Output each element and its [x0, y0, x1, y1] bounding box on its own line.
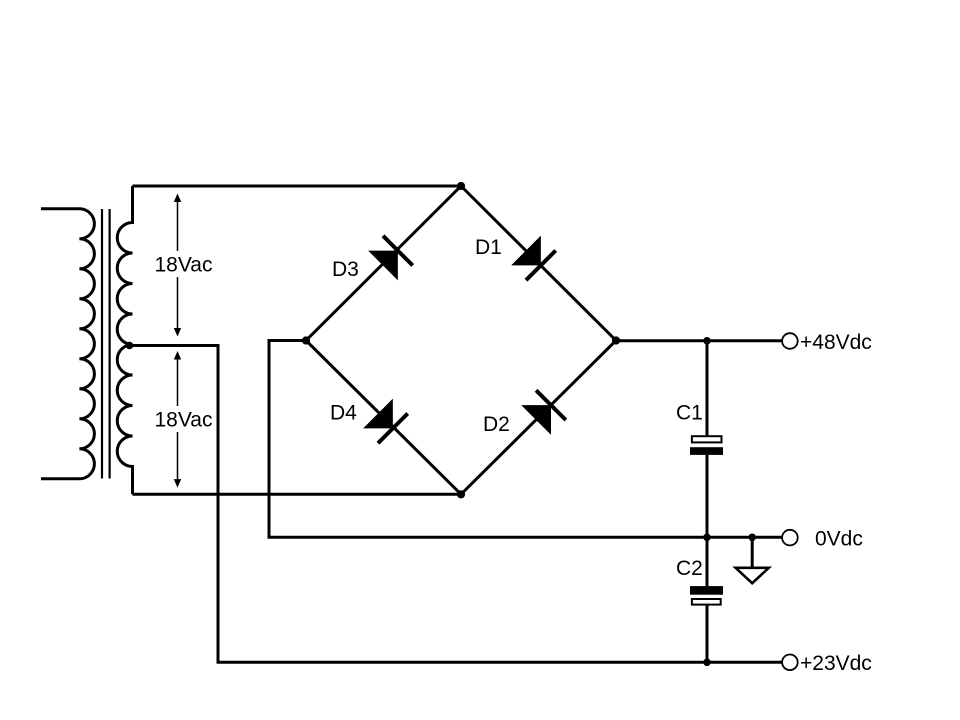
transformer T1 secondary winding: [117, 186, 132, 494]
terminal 0Vdc: [782, 530, 798, 546]
node: transformer centre tap: [126, 342, 134, 350]
wire: bridge left vertex to 0Vdc rail: [269, 341, 782, 538]
svg-text:C1: C1: [676, 402, 703, 425]
capacitor C2: [690, 586, 723, 605]
bridge rectifier diamond wires: [306, 186, 616, 494]
diode D2 (bottom-right arm): [521, 390, 566, 435]
svg-text:D1: D1: [475, 236, 502, 259]
wire: centre tap to +23Vdc rail: [130, 346, 782, 663]
terminal +23Vdc: [782, 655, 798, 671]
capacitor C1: [690, 436, 723, 455]
wire: secondary top to bridge top vertex: [133, 185, 462, 188]
wire: C1 bottom to 0Vdc rail: [706, 455, 709, 537]
diode D1 (top-right arm): [511, 236, 556, 281]
dimension arrow: lower 18Vac: [174, 351, 181, 488]
node: C1/C2 junction on 0Vdc rail: [703, 534, 711, 542]
node: C1 junction on +48Vdc rail: [703, 337, 711, 345]
diode D3 (top-left arm): [368, 236, 413, 281]
wire: 0Vdc rail to C2 top: [706, 537, 709, 586]
svg-text:D4: D4: [330, 402, 357, 425]
svg-text:+23Vdc: +23Vdc: [800, 652, 872, 675]
node: bridge bottom vertex: [457, 490, 465, 498]
svg-text:C2: C2: [676, 557, 703, 580]
diode D4 (bottom-left arm): [363, 399, 408, 444]
wire: secondary bottom to bridge bottom vertex: [133, 493, 462, 496]
svg-text:18Vac: 18Vac: [155, 254, 213, 277]
ground symbol: [736, 537, 769, 583]
node: ground junction on 0Vdc rail: [748, 534, 756, 542]
node: bridge right vertex: [612, 336, 620, 344]
wire: bridge right vertex to +48Vdc terminal: [616, 339, 782, 342]
wire: C2 bottom to +23Vdc rail: [706, 606, 709, 663]
terminal +48Vdc: [782, 333, 798, 349]
transformer T1 primary winding: [41, 209, 94, 479]
svg-text:D2: D2: [483, 413, 510, 436]
node: C2 junction on +23Vdc rail: [703, 659, 711, 667]
svg-text:0Vdc: 0Vdc: [815, 528, 863, 551]
svg-text:+48Vdc: +48Vdc: [800, 331, 872, 354]
svg-text:18Vac: 18Vac: [155, 409, 213, 432]
wire: capacitor column upper segment: [706, 341, 709, 435]
node: bridge left vertex: [302, 336, 310, 344]
label 18Vac (upper): [151, 251, 215, 277]
node: bridge top vertex: [457, 182, 465, 190]
svg-text:D3: D3: [332, 258, 359, 281]
label 18Vac (lower): [151, 406, 215, 432]
dimension arrow: upper 18Vac: [174, 194, 181, 337]
transformer core lines: [101, 209, 103, 479]
